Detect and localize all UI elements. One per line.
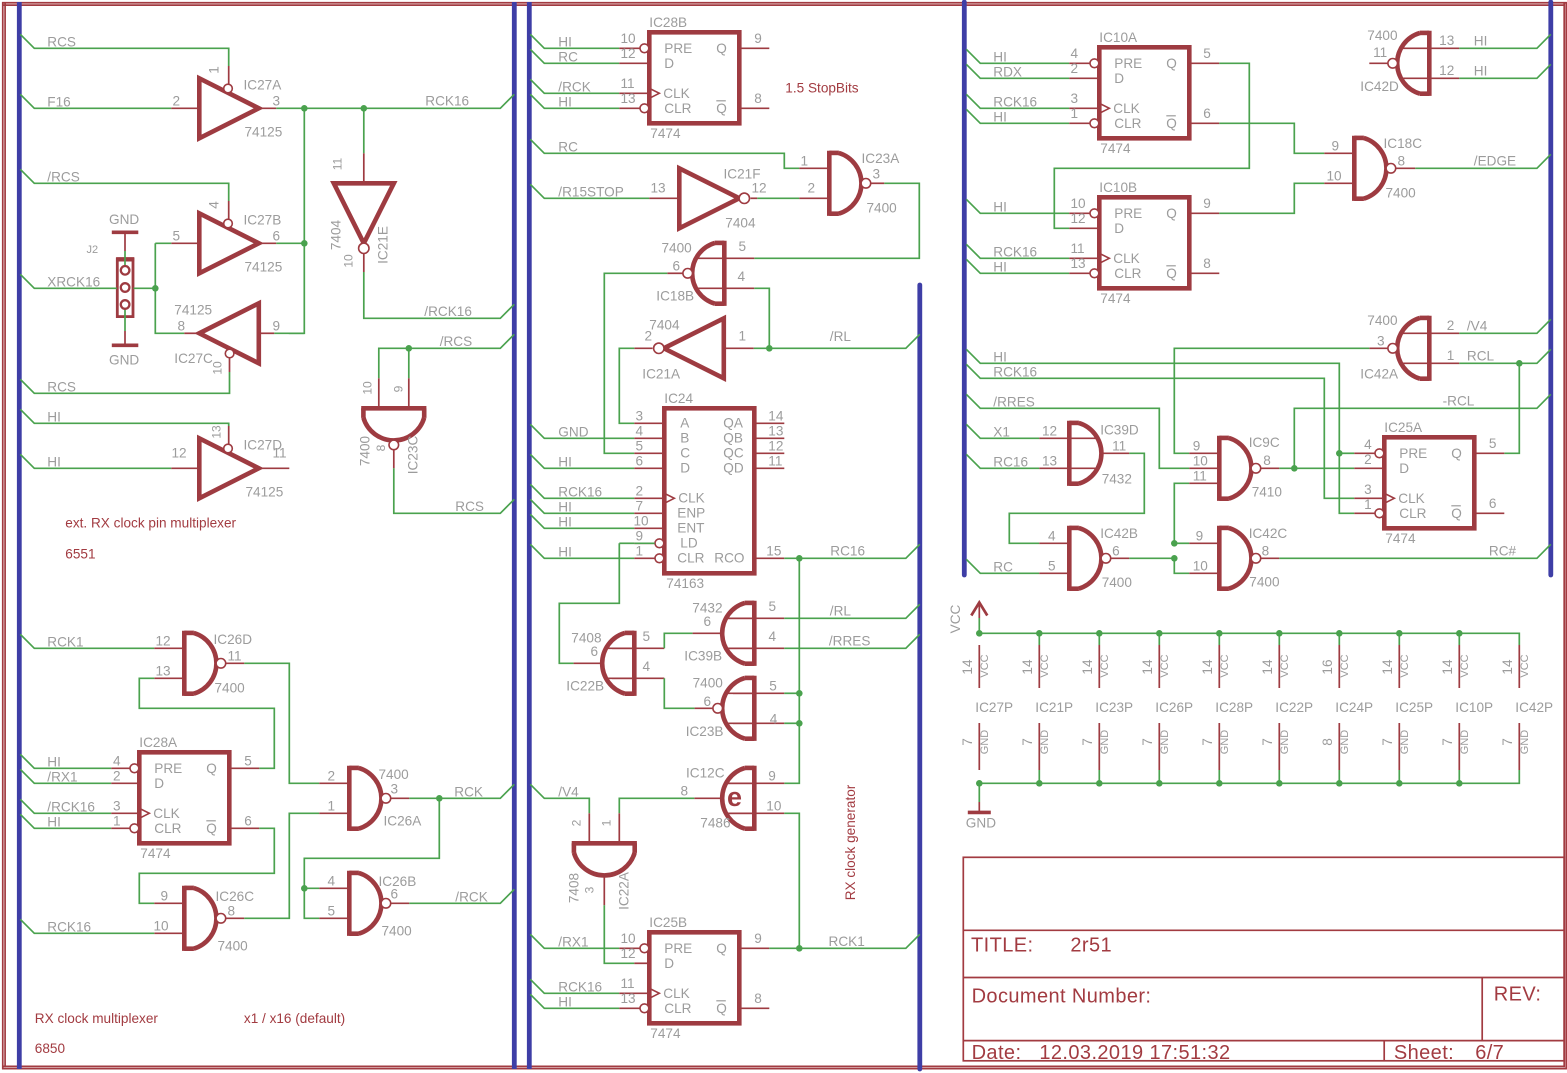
svg-text:RCK16: RCK16 <box>993 245 1037 260</box>
svg-text:2: 2 <box>1364 452 1372 467</box>
svg-text:11: 11 <box>1193 469 1207 484</box>
bus between col1/col2 (right) <box>527 2 532 1069</box>
svg-text:7432: 7432 <box>1102 472 1132 487</box>
svg-text:VCC: VCC <box>1219 654 1231 677</box>
svg-text:LD: LD <box>680 536 698 551</box>
wire IC12C pin10 down to RCK1 junction <box>784 813 799 948</box>
IC24 QB pin 13 stub <box>754 437 784 439</box>
IC10B Q pin 9 <box>1189 212 1219 214</box>
svg-text:9: 9 <box>754 931 762 946</box>
DFF IC10B <box>1099 197 1189 288</box>
svg-text:9: 9 <box>636 529 644 544</box>
svg-text:7400: 7400 <box>358 435 373 466</box>
NAND IC26D (7400) <box>182 631 187 696</box>
wire IC18B pin4 to /RL junction <box>754 288 769 348</box>
bus left of col3 <box>962 2 967 575</box>
NAND IC42C (7400) <box>1217 526 1222 591</box>
net /RCS wire <box>20 169 228 201</box>
svg-text:PRE: PRE <box>1114 206 1142 221</box>
svg-text:IC26P: IC26P <box>1155 700 1193 715</box>
NAND IC26B (7400) <box>347 871 352 936</box>
svg-text:7474: 7474 <box>650 1026 681 1041</box>
net HI to IC10B PRE pin 10 <box>966 199 1069 213</box>
svg-text:8: 8 <box>754 91 762 106</box>
svg-text:6: 6 <box>591 644 599 659</box>
svg-text:74163: 74163 <box>666 576 704 591</box>
svg-text:e: e <box>727 782 742 812</box>
inverter IC21E (7404 pointing down) <box>334 183 394 243</box>
svg-text:Document Number:: Document Number: <box>972 986 1152 1008</box>
DFF IC25A <box>1384 437 1474 528</box>
net RCK16 wire <box>20 919 154 933</box>
NAND IC18C input pin 10 <box>1324 182 1354 184</box>
wire IC21A out to IC24 pin A <box>619 348 634 423</box>
junction HI to PRE <box>1336 450 1343 457</box>
svg-text:7: 7 <box>1260 738 1275 746</box>
wire IC24 LD route to IC22B pin 6 <box>634 542 654 544</box>
AND IC22A input pin 2 <box>588 813 590 843</box>
svg-text:3: 3 <box>273 94 281 109</box>
wire IC22A out to IC25B D pin 12 <box>604 905 634 963</box>
inverter IC21F input pin 13 <box>649 197 679 199</box>
svg-text:PRE: PRE <box>1114 56 1142 71</box>
svg-text:D: D <box>664 956 674 971</box>
svg-text:HI: HI <box>558 515 572 530</box>
svg-text:IC22P: IC22P <box>1275 700 1313 715</box>
svg-text:13: 13 <box>1042 454 1057 469</box>
XOR IC12C (7486, mirrored) <box>752 766 757 831</box>
NAND IC9C (7410) <box>1217 436 1222 501</box>
net /RCS wire from IC23C to bus <box>409 334 515 348</box>
svg-text:CLR: CLR <box>1114 266 1141 281</box>
svg-text:GND: GND <box>109 353 139 368</box>
svg-text:Q: Q <box>1166 56 1177 71</box>
svg-text:1.5 StopBits: 1.5 StopBits <box>785 81 859 96</box>
svg-text:HI: HI <box>558 95 572 110</box>
junction RCK feedback <box>436 795 443 802</box>
net /RRES wire to IC9C pin 10 <box>966 394 1189 468</box>
OR IC39B output pin 5 <box>727 617 784 619</box>
junction IC42C pin10 branch <box>1171 555 1178 562</box>
net HI to IC10B CLR pin 13 <box>966 259 1069 273</box>
svg-text:/RCS: /RCS <box>440 334 472 349</box>
svg-text:14: 14 <box>768 409 784 424</box>
svg-text:1: 1 <box>1447 348 1455 363</box>
svg-text:3: 3 <box>1364 482 1372 497</box>
svg-text:4: 4 <box>113 754 121 769</box>
svg-text:7: 7 <box>1380 738 1395 746</box>
svg-text:11: 11 <box>1071 241 1085 256</box>
svg-text:F16: F16 <box>47 95 70 110</box>
net RCK16 wire from IC27A output to bus <box>276 94 514 108</box>
svg-text:IC27A: IC27A <box>244 78 283 93</box>
svg-text:D: D <box>680 461 690 476</box>
svg-text:RCK: RCK <box>454 785 483 800</box>
svg-text:1: 1 <box>1071 106 1079 121</box>
svg-text:3: 3 <box>1071 91 1079 106</box>
svg-text:7400: 7400 <box>693 676 724 691</box>
svg-text:IC21E: IC21E <box>376 226 391 264</box>
svg-text:1: 1 <box>739 329 747 344</box>
wire XRCK16 rail to buffers <box>155 242 171 244</box>
svg-text:CLR: CLR <box>154 821 181 836</box>
svg-text:HI: HI <box>993 50 1007 65</box>
svg-text:RCL: RCL <box>1467 349 1495 364</box>
svg-text:6850: 6850 <box>35 1041 66 1056</box>
NAND IC23A input pin 2 <box>799 197 829 199</box>
svg-text:10: 10 <box>154 919 170 934</box>
svg-text:IC28P: IC28P <box>1215 700 1253 715</box>
svg-text:2: 2 <box>1071 61 1079 76</box>
net RCK16 to IC10A CLK pin 3 <box>966 94 1069 108</box>
net HI to IC28A CLR pin 1 <box>20 814 111 828</box>
svg-text:/RCK: /RCK <box>558 80 590 95</box>
svg-text:7400: 7400 <box>1367 28 1398 43</box>
svg-text:x1 / x16 (default): x1 / x16 (default) <box>244 1011 345 1026</box>
svg-text:1: 1 <box>600 819 614 826</box>
net HI to IC24 CLR pin 1 <box>530 544 634 558</box>
junction IC27B output <box>301 240 308 247</box>
svg-text:7400: 7400 <box>867 201 898 216</box>
svg-text:2: 2 <box>328 769 336 784</box>
title block outer <box>963 857 1564 1061</box>
NAND IC26A input pin 1 <box>319 812 349 814</box>
svg-text:IC21P: IC21P <box>1035 700 1073 715</box>
svg-text:7: 7 <box>1020 738 1035 746</box>
svg-text:CLR: CLR <box>1114 116 1141 131</box>
svg-text:GND: GND <box>1219 730 1231 755</box>
NAND IC23C input pin 10 <box>379 348 409 378</box>
bus mid col2 right <box>917 285 922 1069</box>
svg-text:PRE: PRE <box>664 41 692 56</box>
svg-text:HI: HI <box>993 260 1007 275</box>
svg-text:2: 2 <box>113 769 121 784</box>
buffer IC27B input pin 5 <box>171 242 199 244</box>
net RCK wire to bus <box>409 784 514 798</box>
wire IC26D out to IC26A pin2 <box>244 663 319 783</box>
NAND IC26A output pin 3 <box>391 797 410 799</box>
svg-text:3: 3 <box>583 886 597 893</box>
power pins IC22P <box>1276 630 1283 637</box>
svg-text:10: 10 <box>1327 169 1343 184</box>
bus right of col3 <box>1548 2 1553 575</box>
junction IC23B pin4 on RC16 rail <box>796 720 803 727</box>
svg-text:2: 2 <box>173 94 181 109</box>
svg-text:/RCS: /RCS <box>47 170 79 185</box>
net RCK16 long wire to IC25A CLK <box>966 364 1354 498</box>
svg-text:14: 14 <box>1380 659 1395 675</box>
svg-text:HI: HI <box>558 545 572 560</box>
svg-text:QC: QC <box>723 446 744 461</box>
power pins IC24P <box>1336 630 1343 637</box>
svg-text:IC26C: IC26C <box>216 889 255 904</box>
svg-text:Q: Q <box>1166 116 1177 131</box>
title block line 1 <box>963 929 1564 931</box>
svg-text:RCS: RCS <box>455 499 484 514</box>
IC28A Qbar pin 6 <box>229 827 259 829</box>
svg-text:5: 5 <box>739 239 747 254</box>
buffer IC27C enable pin 10 <box>229 358 231 372</box>
NAND IC9C input pin 9 <box>1189 452 1219 454</box>
svg-text:8: 8 <box>754 991 762 1006</box>
junction RC16 rail <box>796 555 803 562</box>
svg-text:14: 14 <box>1200 659 1215 675</box>
wire IC18B out to IC24 pin C <box>604 273 667 453</box>
wire IC42A out to IC9C pin 9 <box>1174 348 1369 453</box>
svg-text:74125: 74125 <box>246 485 284 500</box>
svg-text:14: 14 <box>1020 659 1035 675</box>
junction at IC21E input branch <box>361 105 368 112</box>
net HI to IC24 ENP pin 7 <box>530 499 634 513</box>
net /RRES wire to bus <box>784 634 920 648</box>
svg-text:CLK: CLK <box>1113 251 1139 266</box>
net RCS wire from IC23C to bus <box>394 468 515 513</box>
svg-text:7432: 7432 <box>692 601 722 616</box>
NAND IC26D input pin 13 <box>154 677 184 679</box>
svg-text:RCK16: RCK16 <box>993 365 1037 380</box>
svg-text:IC22B: IC22B <box>566 679 604 694</box>
net /V4 wire to IC22A pin 2 <box>530 784 589 813</box>
svg-text:CLR: CLR <box>664 1001 691 1016</box>
svg-text:4: 4 <box>770 712 778 727</box>
svg-text:CLK: CLK <box>1398 491 1424 506</box>
svg-text:IC27B: IC27B <box>244 213 282 228</box>
NAND IC42D (7400, mirrored) <box>1427 31 1432 96</box>
svg-text:12.03.2019 17:51:32: 12.03.2019 17:51:32 <box>1039 1042 1230 1064</box>
svg-text:GND: GND <box>1339 730 1351 755</box>
svg-text:IC27P: IC27P <box>975 700 1013 715</box>
net RC# wire to bus <box>1279 544 1551 558</box>
svg-text:14: 14 <box>1260 659 1275 675</box>
net /RL wire to bus <box>754 334 920 348</box>
svg-text:7: 7 <box>1200 738 1215 746</box>
svg-text:HI: HI <box>993 350 1007 365</box>
svg-text:RCK1: RCK1 <box>829 934 865 949</box>
svg-text:5: 5 <box>769 679 777 694</box>
svg-text:74125: 74125 <box>245 260 283 275</box>
svg-text:10: 10 <box>1071 196 1087 211</box>
svg-text:10: 10 <box>766 799 782 814</box>
svg-text:12: 12 <box>172 446 187 461</box>
svg-text:IC26D: IC26D <box>214 632 253 647</box>
inverter IC21A (7404, mirrored) <box>664 318 724 378</box>
net HI to IC10A PRE pin 4 <box>966 49 1069 63</box>
svg-text:IC42P: IC42P <box>1515 700 1553 715</box>
NAND IC18B (7400, mirrored) <box>722 241 727 306</box>
buffer IC27A enable pin 1 <box>228 66 230 84</box>
net /RX1 to IC28A D pin 2 <box>20 769 111 783</box>
svg-text:2: 2 <box>1447 318 1455 333</box>
AND IC22B (7408, mirrored) <box>632 631 637 696</box>
svg-text:1: 1 <box>636 544 644 559</box>
net XRCK16 wire <box>20 274 117 288</box>
svg-text:11: 11 <box>621 976 635 991</box>
svg-text:9: 9 <box>1193 439 1201 454</box>
svg-text:GND: GND <box>979 730 991 755</box>
svg-text:3: 3 <box>636 409 644 424</box>
NAND IC18C output pin 8 <box>1396 167 1416 169</box>
AND IC22A output pin 3 <box>603 875 605 906</box>
wire IC22B pin5 to IC39B pin 6 <box>664 633 692 648</box>
svg-text:CLK: CLK <box>663 86 689 101</box>
svg-text:QB: QB <box>723 431 743 446</box>
net HI to IC24 ENT pin 10 <box>530 514 634 528</box>
AND IC22A input pin 1 <box>618 813 620 843</box>
NAND IC9C input pin 11 <box>1189 482 1219 484</box>
NAND IC42B input pin 4 <box>1039 542 1069 544</box>
svg-text:11: 11 <box>273 446 287 461</box>
AND IC22A (7408, pointing down) <box>572 841 637 846</box>
svg-text:10: 10 <box>1193 559 1209 574</box>
svg-text:3: 3 <box>391 782 399 797</box>
svg-text:A: A <box>680 416 690 431</box>
svg-text:HI: HI <box>558 35 572 50</box>
svg-text:IC10A: IC10A <box>1099 30 1138 45</box>
IC28B Q pin 9 stub <box>739 47 769 49</box>
svg-text:7400: 7400 <box>382 924 413 939</box>
svg-text:CLR: CLR <box>677 551 704 566</box>
svg-text:7: 7 <box>636 499 644 514</box>
svg-text:RC: RC <box>558 140 578 155</box>
svg-text:RX clock generator: RX clock generator <box>843 784 858 900</box>
net RC wire to IC23A pin 1 <box>530 139 799 168</box>
svg-text:Q: Q <box>1451 446 1462 461</box>
svg-text:/RRES: /RRES <box>829 634 871 649</box>
NAND IC23B output pin 5 <box>733 692 784 694</box>
svg-text:Q: Q <box>206 761 217 776</box>
svg-text:7: 7 <box>1140 738 1155 746</box>
svg-text:RCK16: RCK16 <box>558 485 602 500</box>
svg-text:Q: Q <box>1166 206 1177 221</box>
svg-text:VCC: VCC <box>1039 654 1051 677</box>
XOR IC12C input pin 9 <box>727 782 784 784</box>
net RCK16 to IC25B CLK pin 11 <box>530 979 619 993</box>
buffer IC27B output pin 6 <box>259 242 277 244</box>
NAND IC9C input pin 10 <box>1189 467 1219 469</box>
svg-text:IC23C: IC23C <box>406 436 421 475</box>
svg-text:CLR: CLR <box>1399 506 1426 521</box>
net HI wire to bus (IC42D pin12) <box>1459 64 1551 78</box>
svg-text:ENT: ENT <box>677 521 704 536</box>
svg-text:4: 4 <box>1071 46 1079 61</box>
svg-text:GND: GND <box>1459 730 1471 755</box>
svg-text:7404: 7404 <box>649 318 680 333</box>
wire rail tri-state outputs <box>289 108 305 333</box>
svg-text:RX clock multiplexer: RX clock multiplexer <box>35 1011 159 1026</box>
inverter IC21A input pin 1 <box>724 347 754 349</box>
svg-text:74125: 74125 <box>174 303 212 318</box>
svg-text:4: 4 <box>328 874 336 889</box>
svg-text:7400: 7400 <box>379 767 410 782</box>
svg-text:VCC: VCC <box>979 654 991 677</box>
GND symbol at rail <box>978 783 980 802</box>
svg-text:IC24P: IC24P <box>1335 700 1373 715</box>
NAND IC23C output pin 8 <box>393 450 395 469</box>
OR IC39B input pin 6 <box>693 632 724 634</box>
svg-text:5: 5 <box>1048 559 1056 574</box>
svg-text:9: 9 <box>273 319 281 334</box>
svg-text:12: 12 <box>621 46 636 61</box>
NAND IC42A input pin 1 <box>1429 362 1459 364</box>
svg-text:6: 6 <box>1203 106 1211 121</box>
svg-text:10: 10 <box>1193 454 1209 469</box>
buffer IC27D enable pin 13 <box>228 426 230 444</box>
svg-text:7474: 7474 <box>1100 291 1131 306</box>
svg-text:X1: X1 <box>993 425 1010 440</box>
svg-text:9: 9 <box>1332 139 1340 154</box>
svg-text:/RL: /RL <box>830 604 852 619</box>
inverter IC21E output pin 10 <box>363 254 365 273</box>
svg-text:IC42D: IC42D <box>1360 79 1399 94</box>
IC25A D pin 2 <box>1354 467 1384 469</box>
svg-text:RCK1: RCK1 <box>47 635 83 650</box>
wire IC23A out to IC18B pin 5 <box>754 183 919 258</box>
svg-text:Q: Q <box>716 101 727 116</box>
net /RX1 to IC25B PRE pin 10 <box>530 934 619 948</box>
IC25A Qbar pin 6 stub <box>1474 512 1504 514</box>
svg-text:VCC: VCC <box>1399 654 1411 677</box>
buffer IC27A <box>199 78 258 138</box>
IC24 QC pin 12 stub <box>754 452 784 454</box>
svg-text:QD: QD <box>723 461 744 476</box>
svg-text:12: 12 <box>1071 211 1086 226</box>
svg-text:8: 8 <box>374 444 388 451</box>
junction IC23B pin5 on RC16 rail <box>796 690 803 697</box>
net /RCK16 to IC28A CLK pin 3 <box>20 799 111 813</box>
IC25B D pin 12 <box>634 962 649 964</box>
NAND IC26A (7400) <box>347 766 352 831</box>
net HI wire to IC27D enable <box>20 409 228 426</box>
net RCK1 wire to bus <box>799 934 920 948</box>
svg-text:8: 8 <box>1398 154 1406 169</box>
svg-text:HI: HI <box>1474 34 1488 49</box>
VCC symbol arrow <box>978 618 980 633</box>
svg-text:7486: 7486 <box>700 816 730 831</box>
NAND IC42C input pin 10 <box>1189 572 1219 574</box>
svg-text:6: 6 <box>636 454 644 469</box>
svg-text:7400: 7400 <box>215 681 246 696</box>
NAND IC26D input pin 12 <box>154 647 184 649</box>
svg-text:IC23P: IC23P <box>1095 700 1133 715</box>
svg-text:IC22A: IC22A <box>617 871 632 910</box>
NAND IC23B input pin 6 <box>695 707 713 709</box>
net /V4 wire to bus <box>1459 319 1551 333</box>
svg-text:CLK: CLK <box>153 806 179 821</box>
buffer IC27B <box>199 213 258 273</box>
buffer IC27D output pin 11 (stub) <box>259 467 290 469</box>
svg-text:GND: GND <box>558 425 588 440</box>
svg-text:10: 10 <box>211 361 225 375</box>
svg-text:GND: GND <box>966 816 996 831</box>
net /EDGE wire to bus <box>1415 154 1551 168</box>
svg-text:RCK16: RCK16 <box>425 94 469 109</box>
svg-text:/RCK16: /RCK16 <box>47 800 95 815</box>
IC24 QD pin 11 stub <box>754 467 784 469</box>
power pins IC25P <box>1396 630 1403 637</box>
NAND IC42A output pin 3 <box>1369 347 1388 349</box>
svg-text:14: 14 <box>1440 659 1455 675</box>
inverter IC21F (7404) <box>679 168 739 228</box>
svg-text:16: 16 <box>1320 659 1335 674</box>
svg-text:10: 10 <box>361 381 375 395</box>
svg-text:2: 2 <box>808 181 816 196</box>
svg-text:11: 11 <box>768 454 782 469</box>
svg-text:CLR: CLR <box>664 101 691 116</box>
svg-text:HI: HI <box>47 410 61 425</box>
svg-text:14: 14 <box>1080 659 1095 675</box>
svg-text:IC24: IC24 <box>664 391 693 406</box>
svg-text:/RL: /RL <box>830 329 852 344</box>
